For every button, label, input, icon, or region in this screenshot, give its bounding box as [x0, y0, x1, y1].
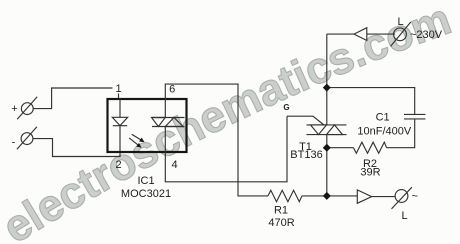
svg-text:-: -	[12, 136, 16, 148]
svg-text:C1: C1	[376, 111, 390, 123]
svg-text:39R: 39R	[360, 167, 380, 179]
svg-text:10nF/400V: 10nF/400V	[357, 126, 411, 138]
svg-text:~230V: ~230V	[410, 29, 443, 41]
svg-text:2: 2	[115, 159, 121, 171]
svg-text:MOC3021: MOC3021	[121, 188, 171, 200]
svg-text:+: +	[11, 103, 17, 115]
svg-text:G: G	[283, 103, 289, 112]
svg-text:R1: R1	[274, 205, 288, 217]
svg-text:BT136: BT136	[290, 149, 322, 161]
svg-text:IC1: IC1	[137, 175, 154, 187]
svg-text:L: L	[401, 210, 407, 222]
svg-text:4: 4	[172, 159, 178, 171]
svg-text:1: 1	[115, 83, 121, 95]
svg-text:L: L	[397, 16, 403, 28]
svg-text:470R: 470R	[268, 217, 294, 229]
svg-text:~: ~	[412, 191, 418, 203]
svg-text:6: 6	[169, 84, 175, 96]
